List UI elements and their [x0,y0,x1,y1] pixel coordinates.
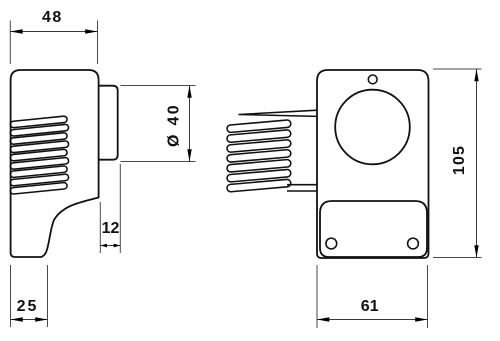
coil wire to body [287,184,317,186]
knob (side view) [99,86,118,160]
dimension 105 line [476,69,478,258]
svg-text:105: 105 [451,145,468,175]
svg-text:25: 25 [17,298,39,315]
svg-text:12: 12 [102,220,120,237]
coil spring (left view) [10,116,69,194]
screw hole left [326,238,337,249]
mounting plate [320,201,427,257]
dimension 12 extension lines [99,202,101,253]
right view body [317,70,429,258]
dimension 48 extension lines [9,21,11,65]
svg-text:61: 61 [361,298,379,315]
dimension D40 extension lines [121,85,196,87]
dimension 12 line [100,245,120,247]
svg-text:Ø 40: Ø 40 [166,103,183,147]
top hole [368,75,377,84]
dimension 48 line [10,31,97,33]
dimension 105 extension lines [433,68,482,70]
dimension 25 extension lines [10,265,12,327]
coil spring (right view) [227,120,291,192]
svg-text:48: 48 [42,9,63,26]
left view body [11,70,99,257]
dial circle (knob front) [335,90,410,165]
dimension 61 extension lines [316,265,318,328]
dimension D40 line [189,86,191,162]
screw hole right [408,238,419,249]
dimension 25 line [11,319,48,321]
sensor needle [239,110,318,116]
dimension 61 line [317,319,428,321]
